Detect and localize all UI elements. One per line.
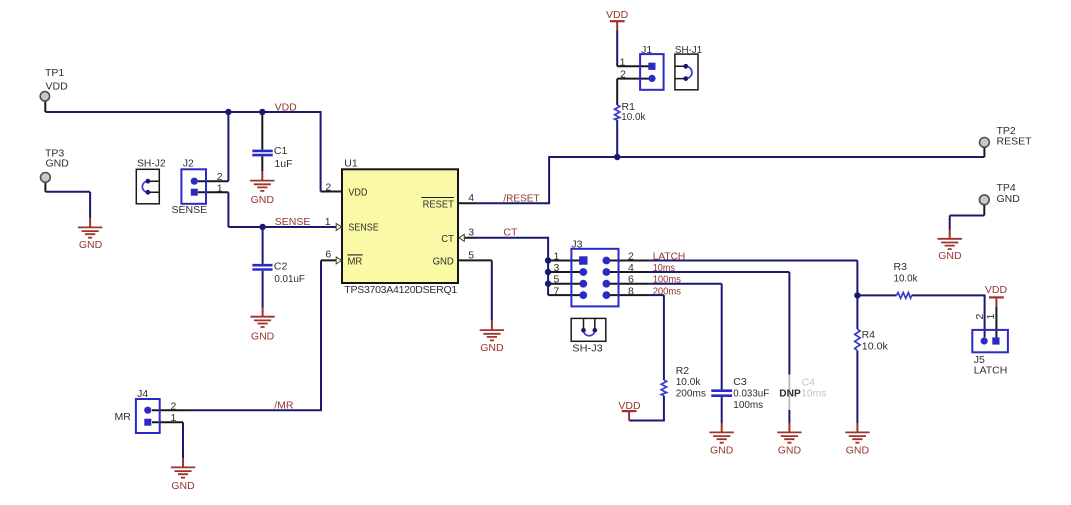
svg-text:1: 1	[170, 412, 176, 424]
svg-text:/RESET: /RESET	[503, 192, 540, 204]
svg-text:VDD: VDD	[985, 284, 1008, 296]
svg-text:CT: CT	[441, 233, 454, 245]
svg-text:2: 2	[170, 401, 176, 413]
svg-text:5: 5	[553, 274, 559, 286]
svg-text:4: 4	[628, 262, 634, 274]
svg-text:GND: GND	[938, 250, 962, 262]
svg-text:100ms: 100ms	[653, 274, 681, 286]
svg-text:VDD: VDD	[606, 9, 629, 21]
svg-text:MR: MR	[115, 411, 132, 423]
svg-text:GND: GND	[778, 445, 802, 457]
svg-text:GND: GND	[480, 342, 504, 354]
svg-text:GND: GND	[79, 239, 103, 251]
svg-text:C2: C2	[274, 261, 288, 273]
svg-text:2: 2	[628, 251, 634, 263]
svg-text:RESET: RESET	[423, 198, 455, 210]
svg-text:SENSE: SENSE	[172, 204, 208, 216]
svg-text:1: 1	[620, 56, 626, 68]
svg-text:200ms: 200ms	[676, 387, 706, 399]
svg-text:10.0k: 10.0k	[676, 376, 701, 388]
svg-text:10ms: 10ms	[653, 262, 675, 274]
svg-text:10.0k: 10.0k	[621, 111, 646, 123]
svg-text:SENSE: SENSE	[275, 216, 311, 228]
svg-text:CT: CT	[503, 226, 518, 238]
svg-text:GND: GND	[251, 331, 275, 343]
svg-text:8: 8	[628, 285, 634, 297]
svg-text:LATCH: LATCH	[974, 365, 1008, 377]
svg-text:2: 2	[325, 181, 331, 193]
svg-text:/MR: /MR	[274, 400, 294, 412]
svg-text:GND: GND	[710, 445, 734, 457]
svg-text:VDD: VDD	[46, 81, 69, 93]
svg-text:0.033uF: 0.033uF	[733, 387, 769, 399]
svg-text:C3: C3	[733, 376, 747, 388]
svg-text:TP1: TP1	[45, 67, 64, 79]
svg-text:100ms: 100ms	[733, 399, 763, 411]
svg-text:1: 1	[553, 251, 559, 263]
svg-text:SH-J2: SH-J2	[137, 158, 166, 170]
svg-text:SH-J3: SH-J3	[572, 342, 603, 354]
svg-text:GND: GND	[251, 194, 275, 206]
svg-text:10.0k: 10.0k	[894, 273, 919, 285]
svg-text:7: 7	[553, 285, 559, 297]
svg-text:4: 4	[468, 192, 474, 204]
svg-text:3: 3	[553, 262, 559, 274]
svg-text:GND: GND	[46, 158, 70, 170]
svg-text:R3: R3	[894, 261, 908, 273]
svg-text:MR: MR	[348, 256, 363, 268]
svg-text:10ms: 10ms	[801, 388, 826, 400]
svg-text:1uF: 1uF	[274, 158, 292, 170]
svg-text:DNP: DNP	[779, 388, 801, 400]
svg-text:VDD: VDD	[618, 400, 641, 412]
svg-text:VDD: VDD	[348, 187, 367, 199]
svg-text:0.01uF: 0.01uF	[274, 273, 305, 285]
svg-text:LATCH: LATCH	[653, 251, 686, 263]
svg-text:SH-J1: SH-J1	[675, 44, 702, 56]
svg-text:J3: J3	[571, 239, 582, 251]
svg-text:J4: J4	[137, 388, 148, 400]
svg-text:1: 1	[325, 216, 331, 228]
svg-text:10.0k: 10.0k	[862, 340, 889, 352]
svg-text:R4: R4	[862, 329, 876, 341]
svg-text:C1: C1	[274, 145, 288, 157]
svg-text:1: 1	[217, 183, 223, 195]
svg-text:VDD: VDD	[275, 102, 298, 114]
svg-text:TPS3703A4120DSERQ1: TPS3703A4120DSERQ1	[344, 284, 457, 296]
svg-text:6: 6	[325, 249, 331, 261]
svg-text:SENSE: SENSE	[348, 222, 378, 234]
svg-text:5: 5	[468, 250, 474, 262]
svg-text:GND: GND	[997, 193, 1021, 205]
svg-text:1: 1	[985, 314, 997, 320]
svg-text:J2: J2	[183, 158, 194, 170]
svg-text:RESET: RESET	[997, 135, 1033, 147]
svg-text:2: 2	[217, 171, 223, 183]
svg-text:GND: GND	[171, 480, 195, 492]
svg-text:GND: GND	[433, 255, 455, 267]
svg-text:200ms: 200ms	[653, 285, 681, 297]
svg-text:J1: J1	[641, 44, 652, 56]
svg-text:U1: U1	[344, 157, 358, 169]
svg-text:2: 2	[620, 69, 626, 81]
svg-text:GND: GND	[846, 445, 870, 457]
svg-text:6: 6	[628, 274, 634, 286]
svg-text:3: 3	[468, 226, 474, 238]
